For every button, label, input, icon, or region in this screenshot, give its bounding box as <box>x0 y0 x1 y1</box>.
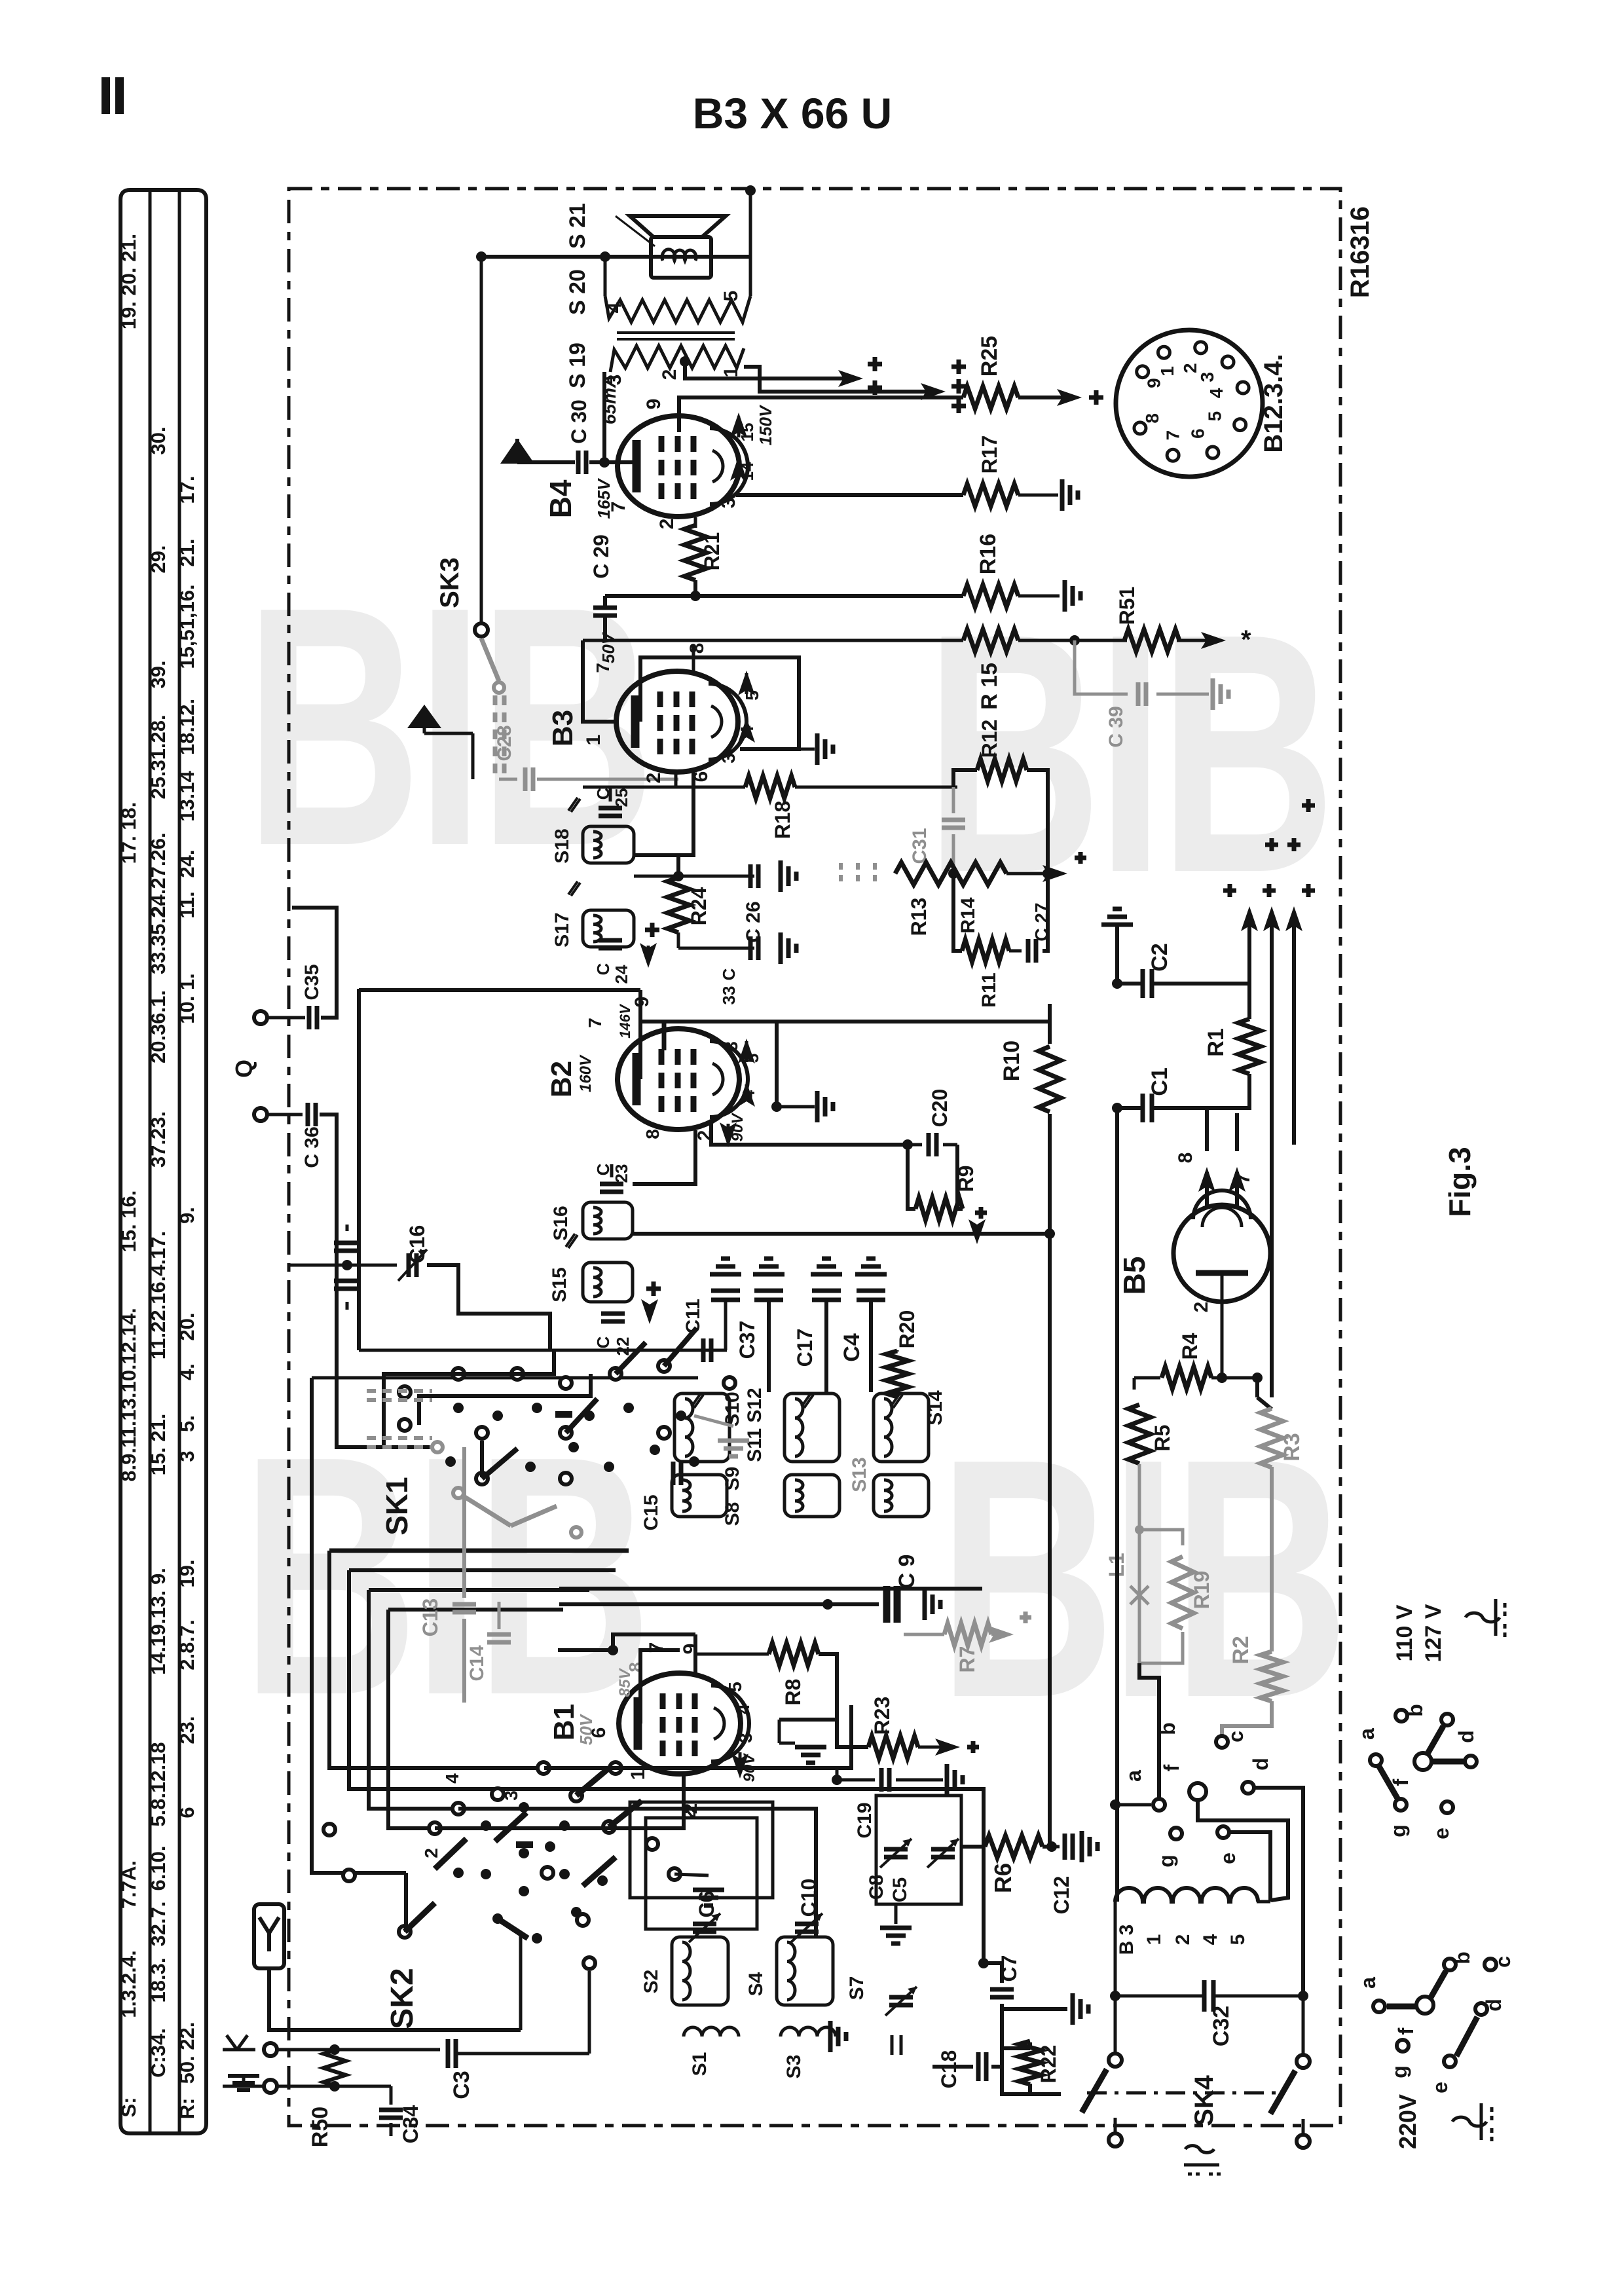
svg-text:R16: R16 <box>976 534 1001 574</box>
heater winding B3 1 2 4 5 <box>1115 1108 1119 1902</box>
svg-text:2: 2 <box>656 519 678 530</box>
resistor R10 <box>777 1020 1050 1023</box>
svg-text:9: 9 <box>1144 378 1164 388</box>
wire S16 out <box>633 1232 1050 1236</box>
trimmer C5 <box>931 1847 955 1852</box>
plus arrow S17 <box>645 928 659 932</box>
svg-text:R51: R51 <box>1115 587 1139 625</box>
svg-text:e: e <box>1216 1853 1240 1864</box>
svg-text:1: 1 <box>1143 1934 1165 1945</box>
capacitor C29 <box>693 580 697 596</box>
wire speaker feed <box>481 255 750 259</box>
svg-text:4: 4 <box>739 1090 758 1099</box>
svg-text:29.: 29. <box>147 545 170 573</box>
plus arrow S15 <box>646 1287 661 1291</box>
svg-text:B 3: B 3 <box>1116 1925 1137 1955</box>
svg-text:6: 6 <box>1187 428 1208 439</box>
ac dc symbol lower <box>1452 2117 1486 2126</box>
gray coupling dashes <box>839 863 843 881</box>
wire SK3 feed <box>480 257 483 622</box>
svg-text:C 36: C 36 <box>301 1126 323 1168</box>
tube B2 <box>618 1029 739 1130</box>
svg-text:15,51,16.: 15,51,16. <box>175 584 198 669</box>
svg-text:B2: B2 <box>545 1061 578 1097</box>
svg-text:9: 9 <box>643 399 665 410</box>
svg-text:3: 3 <box>718 753 739 764</box>
ground B1 <box>778 1720 781 1743</box>
switch SK1 bar <box>555 1411 572 1418</box>
resistor R21 <box>694 517 697 528</box>
wire B4 cathode <box>599 457 610 468</box>
svg-text:e: e <box>1428 2082 1452 2093</box>
capacitor C33 <box>678 947 754 950</box>
svg-text:b: b <box>1403 1704 1427 1717</box>
capacitor C18 <box>976 2052 981 2081</box>
svg-text:BIB: BIB <box>242 1386 647 1767</box>
svg-text:4: 4 <box>1200 1934 1221 1945</box>
svg-text:2: 2 <box>1180 363 1200 373</box>
svg-text:14.19.13. 9.: 14.19.13. 9. <box>147 1568 170 1675</box>
wire bundle vertical 3 <box>369 1588 589 1592</box>
svg-text:6.10.: 6.10. <box>147 1846 170 1891</box>
plus arrow R9 <box>975 1211 987 1215</box>
svg-text:C: C <box>593 1336 613 1348</box>
legend table frame <box>120 190 206 2133</box>
svg-text:S9: S9 <box>722 1467 743 1491</box>
contact g <box>1170 1828 1182 1839</box>
ground arrow C30 <box>517 460 575 464</box>
wire SK2 down <box>519 1936 523 2030</box>
svg-text:S7: S7 <box>846 1976 868 2000</box>
svg-text:6: 6 <box>588 1727 610 1739</box>
svg-text:R18: R18 <box>771 801 794 839</box>
svg-text:R4: R4 <box>1178 1333 1202 1359</box>
coil S3 <box>781 2027 836 2037</box>
svg-text:R6: R6 <box>989 1863 1016 1893</box>
capacitor C1 <box>1141 1094 1145 1122</box>
svg-text:C5: C5 <box>889 1877 911 1902</box>
svg-text:Fig.3: Fig.3 <box>1443 1147 1477 1217</box>
wire B3 pin2 <box>674 773 678 787</box>
svg-text:C 9: C 9 <box>895 1555 919 1589</box>
svg-text:SK1: SK1 <box>380 1477 414 1535</box>
wire B2 grid to S16 <box>633 1130 695 1184</box>
svg-text:C: C <box>719 968 739 980</box>
resistor R13 <box>895 862 1006 885</box>
capacitor C26 <box>748 864 753 888</box>
box C8 C5 <box>876 1796 961 1904</box>
svg-text:7: 7 <box>1232 1173 1254 1185</box>
capacitor C20 <box>908 1143 922 1147</box>
socket B12.3.4 <box>1116 330 1263 477</box>
svg-text:R13: R13 <box>907 898 931 936</box>
wire B1 pin9 bus <box>608 1645 618 1655</box>
trimmer C37 to ground <box>767 1300 771 1392</box>
contact e <box>1217 1826 1229 1838</box>
svg-text:S10: S10 <box>722 1392 743 1426</box>
switch SK4 left <box>1114 1996 1117 2052</box>
svg-text:S17: S17 <box>551 912 573 947</box>
phono terminal lower <box>254 1108 267 1121</box>
svg-text:10. 1.: 10. 1. <box>175 973 198 1024</box>
svg-text:21.: 21. <box>175 538 198 566</box>
svg-text:1.3.2.4.: 1.3.2.4. <box>117 1950 140 2018</box>
svg-text:5: 5 <box>742 690 762 701</box>
svg-text:R21: R21 <box>700 532 724 571</box>
resistor R18 <box>745 776 795 798</box>
svg-text:65mA: 65mA <box>599 375 619 424</box>
svg-text:19. 20. 21.: 19. 20. 21. <box>117 234 140 330</box>
coil S11 <box>784 1475 840 1517</box>
resistor R25 <box>963 386 1018 409</box>
wire S19 end1 to plus <box>744 367 930 392</box>
capacitor C35 <box>267 1016 305 1020</box>
svg-text:90V: 90V <box>729 1113 747 1142</box>
trimmer C16 <box>407 1253 411 1277</box>
capacitor C36 <box>267 1113 303 1116</box>
svg-text:11.: 11. <box>175 891 198 918</box>
svg-text:25.31.28.: 25.31.28. <box>147 714 170 799</box>
resistor R15 <box>963 629 1018 652</box>
svg-text:9: 9 <box>631 997 653 1008</box>
svg-text:85V: 85V <box>616 1668 634 1697</box>
svg-text:110 V: 110 V <box>1392 1604 1417 1661</box>
svg-text:R22: R22 <box>1037 2045 1060 2084</box>
wire top right corner power <box>750 190 1340 191</box>
svg-text:3: 3 <box>721 1041 741 1052</box>
resistor R24 <box>667 877 690 932</box>
svg-text:C:34.: C:34. <box>147 2028 170 2078</box>
svg-text:4.: 4. <box>175 1363 198 1380</box>
resistor R20 <box>886 1351 908 1397</box>
capacitor C19 <box>832 1775 842 1785</box>
resistor R5 <box>1133 1378 1136 1390</box>
svg-text:R1: R1 <box>1204 1028 1228 1056</box>
svg-text:1: 1 <box>627 1769 649 1780</box>
svg-text:17.: 17. <box>175 475 198 504</box>
resistor R14 <box>948 868 959 879</box>
svg-text:15. 16.: 15. 16. <box>117 1190 140 1253</box>
wire C36 to grid bus <box>320 1115 432 1447</box>
svg-text:160V: 160V <box>577 1054 595 1092</box>
switch SK1 dots <box>453 1403 464 1413</box>
wire B3 pin6 down <box>635 771 693 855</box>
svg-text:2: 2 <box>659 369 680 380</box>
svg-text:1: 1 <box>720 367 742 378</box>
wire SK1 stub down <box>480 1441 484 1477</box>
svg-text:18.3.: 18.3. <box>147 1958 170 2003</box>
capacitor C9 bold <box>883 1586 891 1623</box>
capacitor C22 <box>601 1312 625 1316</box>
svg-text:g: g <box>1388 2065 1411 2078</box>
ground SK1 <box>718 1439 749 1443</box>
contact a <box>1115 1803 1151 1807</box>
svg-text:C13: C13 <box>418 1598 442 1637</box>
resistor R12 <box>953 770 977 787</box>
svg-text:d: d <box>1454 1730 1478 1743</box>
stacked trimmer caps <box>342 1260 352 1270</box>
svg-text:R5: R5 <box>1151 1425 1174 1452</box>
svg-text:220V: 220V <box>1394 2094 1421 2149</box>
capacitor C34 <box>380 2085 391 2088</box>
wire top bus junction <box>745 185 756 196</box>
decor <box>245 537 650 917</box>
IF can S17 <box>583 910 634 947</box>
pin4 arrow B2 <box>745 1084 748 1092</box>
svg-text:C 29: C 29 <box>589 534 613 579</box>
svg-text:C 39: C 39 <box>1105 706 1127 747</box>
svg-text:R50: R50 <box>308 2107 333 2147</box>
coil S1 <box>684 2027 739 2037</box>
svg-text:S4: S4 <box>745 1972 767 1996</box>
capacitor C12 <box>1052 1845 1060 1849</box>
svg-text:3: 3 <box>735 1733 756 1743</box>
capacitor C28 <box>499 778 517 781</box>
svg-text:R25: R25 <box>977 336 1002 377</box>
wire B5 cathode <box>1221 1273 1224 1378</box>
svg-text:S15: S15 <box>549 1267 570 1302</box>
trimmer S7 <box>889 1995 913 2000</box>
svg-text:C34: C34 <box>399 2105 422 2143</box>
svg-text:5: 5 <box>743 1054 762 1063</box>
svg-text:5: 5 <box>720 291 742 302</box>
svg-text:22: 22 <box>613 1337 633 1356</box>
antenna terminal <box>227 2035 248 2050</box>
coil S2 C6 <box>672 1937 728 2005</box>
svg-text:39.: 39. <box>147 660 170 688</box>
svg-text:23: 23 <box>612 1164 631 1183</box>
svg-text:2.8.7.: 2.8.7. <box>175 1619 198 1670</box>
svg-text:8: 8 <box>1142 413 1162 424</box>
svg-text:c: c <box>1224 1731 1247 1742</box>
resistor R23 <box>837 1720 868 1747</box>
svg-text:c: c <box>1491 1956 1515 1968</box>
wire grid line C16 <box>289 1264 397 1267</box>
svg-text:5: 5 <box>725 1682 745 1692</box>
svg-text:S13: S13 <box>849 1457 870 1492</box>
wire SK1 loop inner <box>419 1374 591 1425</box>
IF can S10 <box>674 1393 729 1462</box>
tube B3 <box>616 671 738 772</box>
svg-text:8.9.11.13.10.12.14.: 8.9.11.13.10.12.14. <box>117 1308 140 1481</box>
svg-text:3: 3 <box>175 1450 198 1462</box>
capacitor C3 <box>446 2039 451 2068</box>
ground SK2 <box>693 1888 724 1892</box>
svg-text:g: g <box>1154 1854 1178 1868</box>
wire padder bus upper <box>359 1349 726 1352</box>
capacitor C13 <box>452 1602 476 1607</box>
svg-text:4: 4 <box>737 726 757 736</box>
svg-text:5: 5 <box>1204 411 1225 422</box>
svg-text:R16316: R16316 <box>1346 206 1375 298</box>
svg-text:e: e <box>1430 1828 1453 1839</box>
switch SK2 dots <box>481 1820 491 1831</box>
resistor R51 <box>1124 629 1179 652</box>
svg-text:20.36.1.: 20.36.1. <box>147 990 170 1063</box>
capacitor C25 <box>599 806 622 811</box>
svg-text:C16: C16 <box>405 1225 429 1264</box>
phono terminal upper <box>254 1011 267 1024</box>
wire B4 pin3 <box>736 493 963 497</box>
svg-text:B3: B3 <box>547 710 579 747</box>
B1 grid box <box>640 1650 680 1724</box>
svg-text:R7: R7 <box>955 1646 979 1673</box>
svg-text:S18: S18 <box>551 828 573 863</box>
wire anode bus right <box>693 580 694 596</box>
svg-text:32.7.: 32.7. <box>147 1902 170 1947</box>
resistor R6 <box>961 1845 985 1849</box>
resistor R4 <box>1134 1376 1160 1380</box>
capacitor C39 <box>1075 640 1128 694</box>
svg-text:S2: S2 <box>640 1970 662 1994</box>
svg-text:R10: R10 <box>999 1041 1024 1081</box>
svg-text:R23: R23 <box>870 1697 894 1735</box>
transformer core <box>617 331 735 334</box>
svg-text:8: 8 <box>1175 1152 1196 1164</box>
svg-text:19.: 19. <box>175 1559 198 1587</box>
contact f <box>1189 1783 1206 1800</box>
svg-text:C28: C28 <box>494 725 515 761</box>
IF can S18 <box>583 826 634 863</box>
trimmer C17 to ground <box>824 1300 828 1392</box>
svg-text:C 30: C 30 <box>567 399 591 444</box>
svg-text:18.12.: 18.12. <box>175 699 198 755</box>
capacitor C32 <box>1114 1902 1117 1996</box>
wire speaker vertical <box>749 191 752 257</box>
svg-text:23.: 23. <box>175 1716 198 1744</box>
pin4 arrow <box>737 458 741 466</box>
B5 pin arrows <box>1205 1172 1209 1209</box>
wire SK2 right bus <box>544 1705 851 1768</box>
svg-text:f: f <box>1160 1764 1183 1771</box>
pin5 arrow B3 <box>745 673 748 694</box>
svg-text:S 19: S 19 <box>565 342 590 388</box>
svg-text:C: C <box>593 963 613 975</box>
resistor R16 <box>963 585 1018 607</box>
trimmer top left <box>724 1300 728 1350</box>
arrow 90V B2 <box>727 1124 730 1137</box>
svg-text:6: 6 <box>175 1807 198 1818</box>
svg-text:2: 2 <box>1190 1302 1212 1313</box>
svg-text:37.23.: 37.23. <box>147 1111 170 1168</box>
svg-text:SK3: SK3 <box>435 557 464 608</box>
svg-text:S11 S12: S11 S12 <box>744 1388 766 1462</box>
svg-text:C32: C32 <box>1209 2006 1234 2046</box>
pin4 arrow B3 <box>745 720 748 728</box>
coil S13 <box>874 1475 929 1517</box>
svg-text:R17: R17 <box>978 435 1001 474</box>
svg-text:15. 21.: 15. 21. <box>147 1414 170 1476</box>
wire ground line <box>277 2085 380 2088</box>
svg-text:3: 3 <box>718 498 739 509</box>
ground C8 <box>895 1904 898 1924</box>
wires C18 R22 <box>1002 2023 1061 2094</box>
svg-text:146V: 146V <box>617 1003 633 1039</box>
ground B2 box <box>777 1105 815 1109</box>
page mark II <box>101 77 110 114</box>
svg-text:7.7A.: 7.7A. <box>117 1860 140 1909</box>
resistor R7 <box>904 1633 944 1636</box>
svg-text:2: 2 <box>1172 1934 1194 1945</box>
svg-text:5: 5 <box>1227 1934 1249 1945</box>
capacitor C7 <box>978 1958 989 1968</box>
switch SK2 levers <box>435 1839 466 1869</box>
svg-text:C2: C2 <box>1147 943 1172 971</box>
coil S4 C10 <box>777 1937 833 2005</box>
resistor R17 <box>963 484 1018 506</box>
ground B3 box <box>799 748 815 751</box>
svg-text:S16: S16 <box>550 1206 572 1240</box>
svg-text:R11: R11 <box>978 972 1000 1007</box>
svg-text:R2: R2 <box>1228 1636 1253 1664</box>
B3 grid box <box>583 640 616 722</box>
svg-text:C 26: C 26 <box>743 901 764 942</box>
svg-text:B12.3.4.: B12.3.4. <box>1259 354 1288 452</box>
svg-text:B4: B4 <box>544 479 578 518</box>
svg-text:d: d <box>1249 1758 1272 1771</box>
svg-text:SK4: SK4 <box>1190 2074 1219 2126</box>
svg-text:b: b <box>1156 1722 1179 1735</box>
B2 grid box <box>640 1022 777 1107</box>
coil S8 S9 <box>672 1475 727 1517</box>
ac dc symbol upper <box>1466 1613 1500 1622</box>
svg-text:127 V: 127 V <box>1421 1604 1446 1662</box>
pin5 arrow B2 <box>745 1041 748 1062</box>
svg-text:S8: S8 <box>722 1502 743 1526</box>
svg-text:13.14: 13.14 <box>175 770 198 821</box>
wire AF bus vertical <box>357 989 361 1350</box>
svg-text:*: * <box>1241 625 1251 654</box>
svg-text:C17: C17 <box>793 1329 817 1367</box>
selector 110V contacts <box>1395 1710 1407 1722</box>
svg-text:f: f <box>1394 2027 1418 2035</box>
switch SK1 gray arms <box>458 1493 511 1526</box>
anode arrow C28 <box>424 732 473 735</box>
wire B4 pin9 top <box>679 397 963 432</box>
IF can S12 <box>784 1393 840 1462</box>
svg-text:50. 22.: 50. 22. <box>175 2022 198 2084</box>
wire AVC bus <box>559 1587 982 1591</box>
switch SK1 levers <box>664 1328 697 1366</box>
trimmer C8 <box>884 1847 908 1852</box>
svg-text:165V: 165V <box>594 477 614 519</box>
IF can S16 <box>583 1202 633 1239</box>
svg-text:25: 25 <box>612 788 631 807</box>
gray dashes SK1 left <box>367 1389 432 1393</box>
svg-text:S 20: S 20 <box>565 269 590 315</box>
wire S19 tap2 to plus <box>680 356 690 367</box>
IF can S15 <box>583 1263 633 1302</box>
wire padder bus lower <box>312 1376 698 1380</box>
wire SK1 bus nest <box>357 1348 361 1352</box>
svg-text:24: 24 <box>612 965 631 984</box>
switch SK2 extra levers <box>405 1903 435 1932</box>
svg-text:50V: 50V <box>599 631 618 663</box>
wire bundle vertical 1 <box>329 1549 629 1553</box>
resistor R9 <box>908 1145 915 1209</box>
svg-text:R24: R24 <box>687 887 710 925</box>
SK4 dash-dot link <box>1087 2092 1283 2095</box>
wire SK1 loop outer <box>384 1350 554 1448</box>
svg-text:20.: 20. <box>175 1312 198 1340</box>
wire plate B3 bus <box>583 639 963 642</box>
svg-text:B1: B1 <box>548 1704 580 1741</box>
svg-text:C37: C37 <box>735 1321 759 1359</box>
svg-text:8: 8 <box>686 643 708 654</box>
svg-text:7: 7 <box>585 1018 605 1028</box>
svg-text:1: 1 <box>1157 366 1177 377</box>
svg-text:14: 14 <box>737 462 757 481</box>
